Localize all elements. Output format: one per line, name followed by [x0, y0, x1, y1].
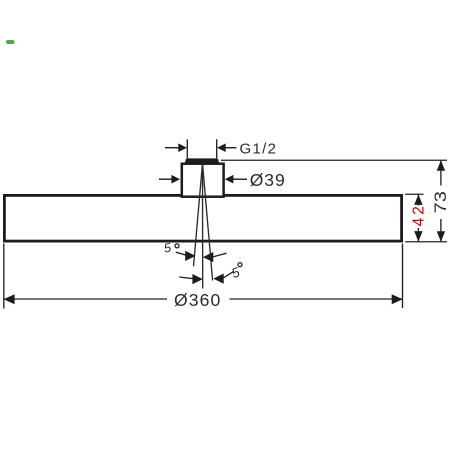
G1/2 dim left tail: [165, 147, 180, 149]
73 dim line: [440, 160, 442, 185]
dia360 right arrow: [392, 294, 403, 304]
dia360 dim line right: [230, 298, 403, 300]
42 dim line: [417, 195, 419, 206]
svg-text:42: 42: [410, 203, 427, 226]
dia39 right arrow: [225, 175, 234, 184]
73 up arrow: [437, 160, 445, 171]
degree circle lower: [238, 263, 242, 267]
svg-text:Ø360: Ø360: [174, 290, 221, 310]
G1/2 left arrow: [178, 143, 187, 152]
73 top extension line: [221, 159, 447, 161]
42 up arrow: [414, 194, 422, 205]
G1/2 right arrow: [217, 143, 226, 152]
dia360 right extension line: [402, 244, 404, 309]
bottom extension line right: [405, 241, 447, 243]
svg-text:G1/2: G1/2: [240, 140, 278, 157]
G1/2 right tail: [225, 147, 237, 149]
5deg upper right tail: [213, 253, 227, 257]
dia39 left tail: [159, 178, 172, 180]
42 down arrow: [414, 231, 422, 242]
degree circle upper: [175, 244, 179, 248]
thread cap: [185, 158, 219, 163]
5deg lower left tail: [179, 277, 193, 279]
5deg upper left arrow (points right at left spray line): [185, 251, 195, 261]
5deg lower right arrow (points left at right spray line): [213, 274, 223, 284]
5deg upper right arrow (points left at centerline): [203, 252, 213, 262]
G1/2 left extension line: [186, 139, 188, 158]
5deg lower left arrow (points right at centerline): [192, 274, 202, 284]
dia360 left extension line: [3, 244, 5, 309]
connector body: [182, 164, 224, 197]
spray centerline: [202, 165, 204, 289]
spray line right 5deg: [203, 165, 213, 281]
5deg lower leader: [223, 271, 234, 278]
dia360 dim line left: [4, 298, 167, 300]
green UI dash top-left: [6, 40, 15, 44]
42 top extension line: [405, 193, 423, 195]
5deg upper leader: [176, 252, 188, 256]
plate (shower head body outline): [4, 195, 401, 241]
73 down arrow: [437, 231, 445, 242]
G1/2 right extension line: [216, 139, 218, 158]
dia39 left arrow: [171, 175, 180, 184]
svg-text:73: 73: [431, 191, 450, 213]
dia360 left arrow: [4, 294, 15, 304]
dia39 right tail: [233, 178, 247, 180]
svg-text:Ø39: Ø39: [250, 170, 286, 190]
spray line left 5deg: [194, 165, 203, 267]
